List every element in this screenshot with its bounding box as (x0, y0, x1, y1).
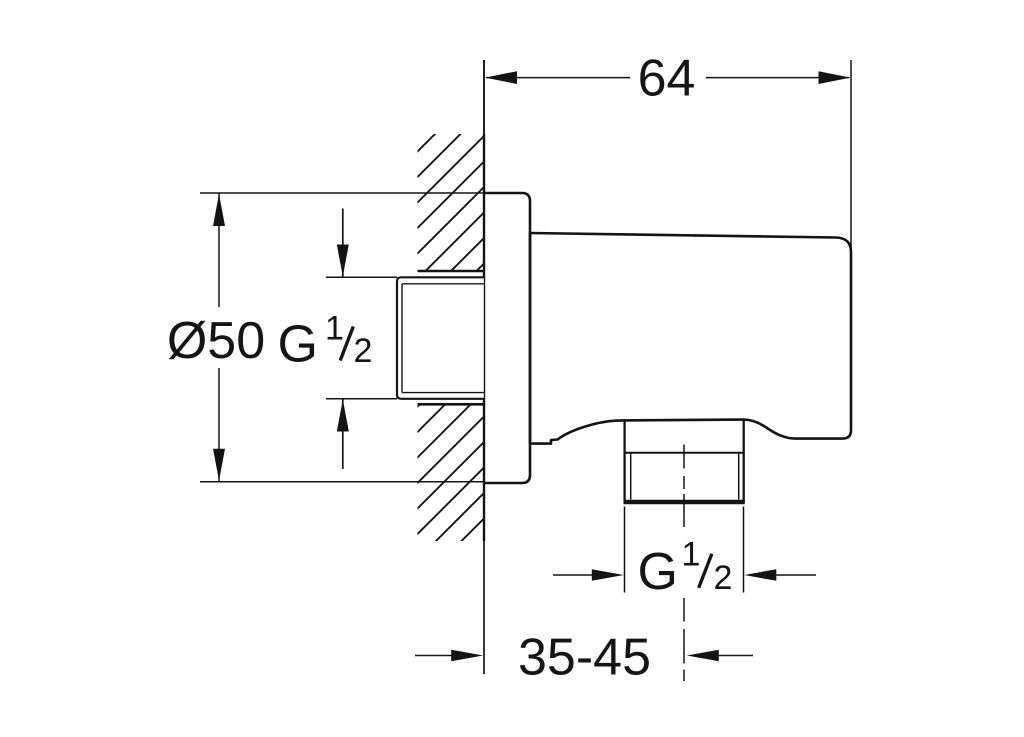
outlet thread shoulder (625, 452, 744, 454)
wall hole top edge (418, 270, 484, 273)
dim G12 left text (278, 310, 373, 374)
dim G12 left arrow bottom (337, 400, 349, 432)
dim D50 arrow bottom (213, 449, 225, 481)
wall hole bottom edge (418, 403, 484, 406)
dim G12 bottom extension right (743, 507, 745, 593)
dim G12 bottom arrow line left (553, 574, 593, 576)
dim D50 extension top (200, 192, 484, 194)
dim 64 line left (486, 77, 630, 79)
svg-text:2: 2 (354, 332, 373, 370)
dim D50 line lower (218, 368, 220, 482)
dim G12 left arrow line bottom (342, 399, 344, 469)
dim D50 line upper (218, 193, 220, 307)
outlet centerline (683, 445, 685, 682)
outlet thread minor left (630, 453, 632, 500)
svg-text:1: 1 (325, 310, 344, 348)
svg-text:2: 2 (714, 559, 733, 597)
wall hatching lower (418, 405, 484, 542)
dim G12 left extension bottom (326, 398, 397, 400)
inlet thread pipe outer (397, 277, 484, 399)
svg-text:64: 64 (638, 50, 696, 108)
outlet boss right edge (743, 420, 745, 502)
svg-text:1: 1 (682, 536, 701, 574)
dim 64 extension right (850, 60, 852, 256)
dim 3545 arrow line left (415, 655, 452, 657)
dim G12 bottom arrow line right (776, 574, 816, 576)
dim 3545 arrow right (687, 650, 719, 662)
dim D50 arrow top (213, 194, 225, 226)
dim G12 bottom text (638, 536, 733, 601)
inlet thread minor left (401, 284, 403, 393)
wall face line (483, 134, 485, 541)
body outline (530, 233, 851, 444)
dim G12 bottom arrow left (592, 569, 624, 581)
svg-text:35-45: 35-45 (518, 628, 651, 686)
wall hatching upper (418, 134, 484, 271)
dim G12 left arrow line top (342, 209, 344, 278)
wall face line extension top (483, 60, 485, 134)
dim G12 bottom extension left (624, 507, 626, 593)
flange (484, 193, 530, 483)
dim G12 bottom arrow right (744, 569, 776, 581)
dim G12 left extension top (326, 276, 397, 278)
dim 3545 arrow left (451, 650, 483, 662)
svg-text:Ø50: Ø50 (167, 312, 265, 370)
outlet thread minor right (738, 453, 740, 500)
dim 64 arrow right (819, 71, 851, 84)
svg-text:G: G (638, 543, 678, 601)
dim 64 line right (706, 77, 849, 79)
wall face line extension bottom (483, 541, 485, 674)
dim D50 extension bottom (200, 481, 484, 483)
inlet thread minor top (402, 283, 484, 285)
dim G12 left arrow top (337, 245, 349, 277)
outlet boss left edge (623, 420, 625, 502)
svg-text:G: G (278, 316, 318, 374)
inlet thread minor bottom (402, 392, 484, 394)
dim 64 arrow left (485, 71, 517, 84)
dim 3545 arrow line right (719, 655, 753, 657)
outlet end face thick (624, 500, 745, 505)
